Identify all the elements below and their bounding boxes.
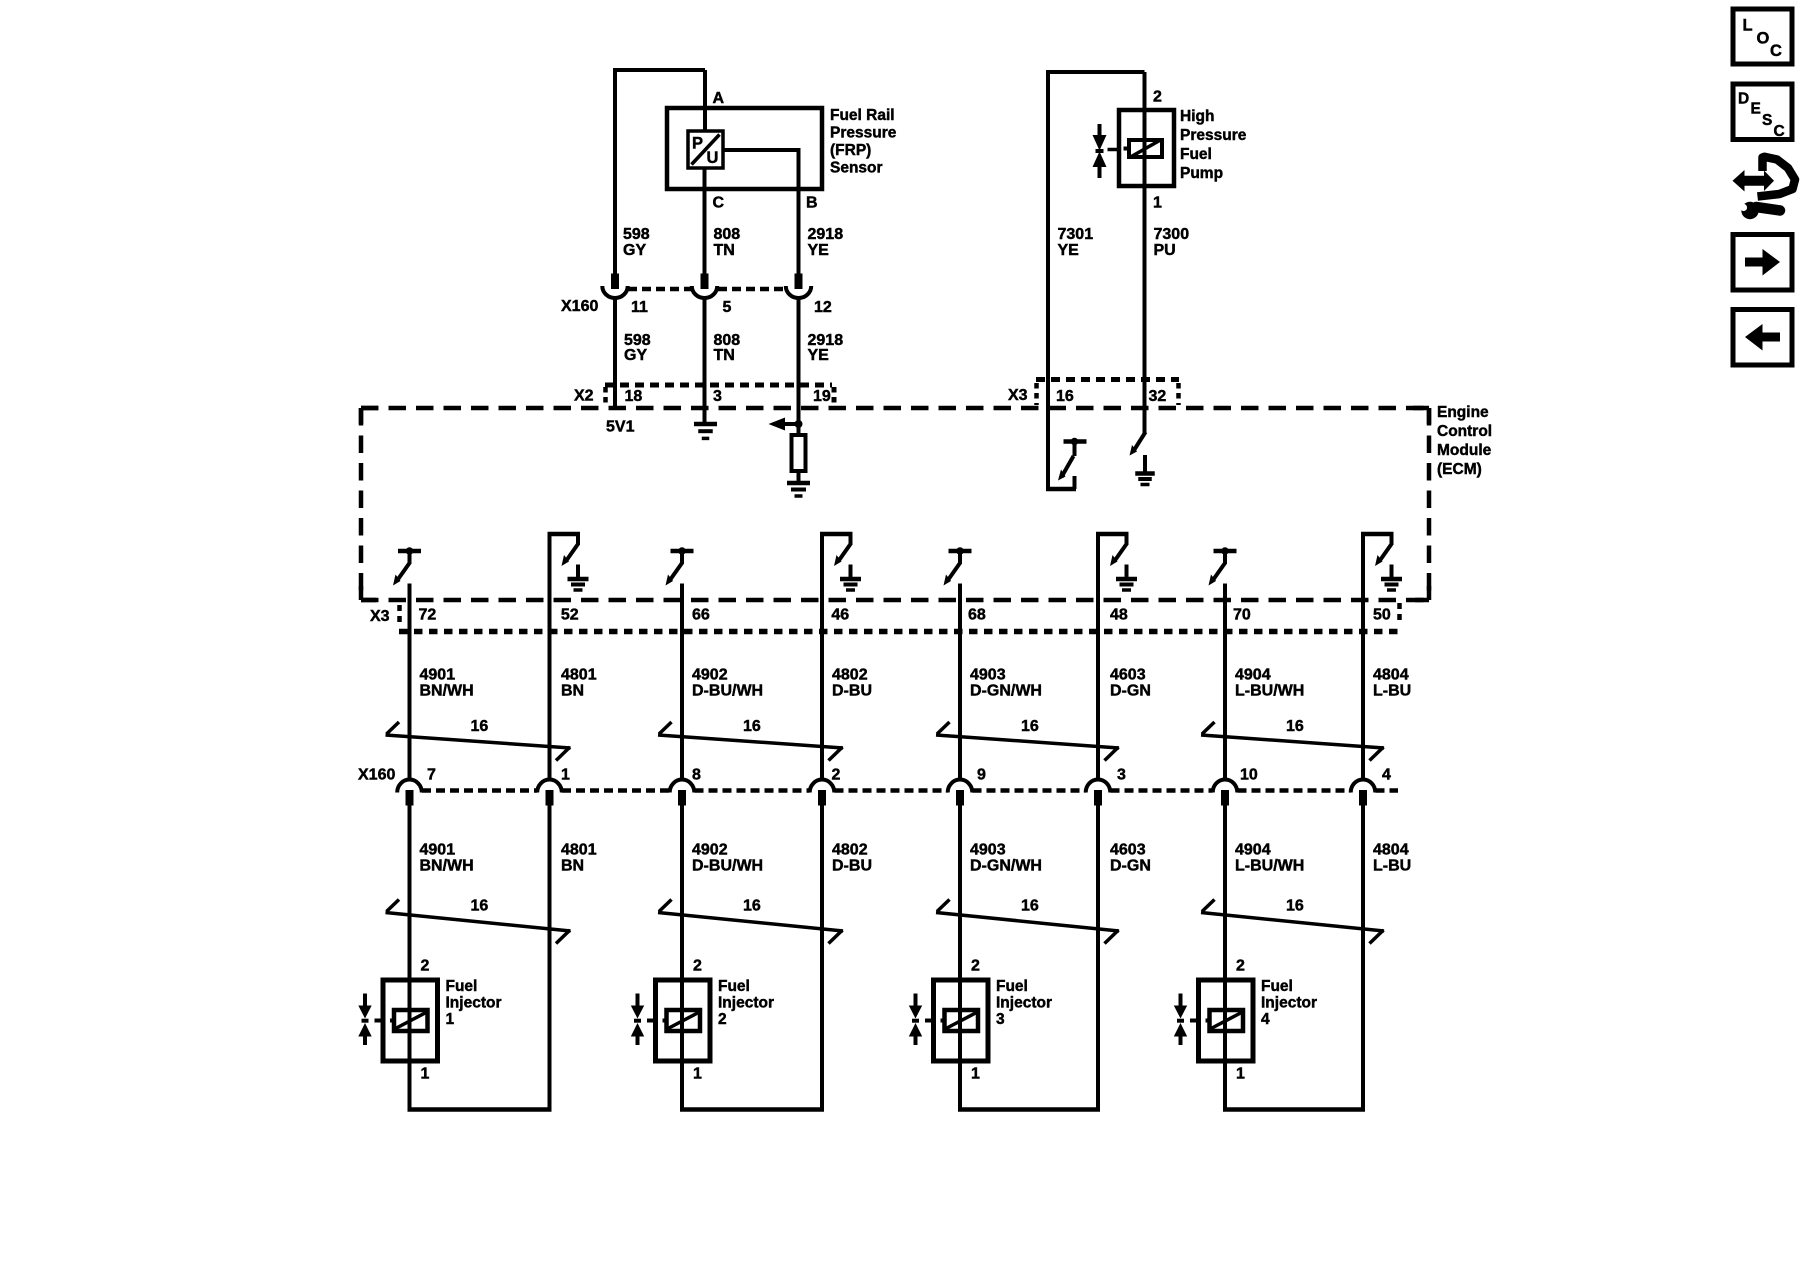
svg-text:11: 11 [631,299,648,316]
svg-text:Control: Control [1437,423,1492,440]
svg-text:3: 3 [1117,767,1126,784]
svg-text:P: P [692,134,703,152]
svg-text:7301: 7301 [1058,226,1094,243]
svg-text:X3: X3 [370,608,390,625]
svg-text:BN: BN [561,683,584,700]
svg-text:46: 46 [831,607,849,624]
svg-text:1: 1 [561,767,570,784]
svg-text:4802: 4802 [832,842,868,859]
svg-text:C: C [1770,42,1782,60]
svg-text:Pump: Pump [1180,165,1223,182]
svg-text:1: 1 [1236,1066,1245,1083]
svg-text:L-BU: L-BU [1373,683,1411,700]
svg-text:D-BU: D-BU [832,683,872,700]
svg-text:2: 2 [693,958,702,975]
svg-text:2: 2 [718,1011,727,1028]
svg-text:Fuel: Fuel [1261,978,1293,995]
svg-text:7: 7 [427,767,436,784]
svg-text:68: 68 [968,607,986,624]
svg-text:D-GN/WH: D-GN/WH [970,858,1042,875]
svg-text:Pressure: Pressure [1180,127,1247,144]
svg-text:4901: 4901 [420,667,456,684]
svg-text:4603: 4603 [1110,667,1146,684]
svg-text:7300: 7300 [1154,226,1190,243]
svg-text:66: 66 [692,607,710,624]
svg-text:4904: 4904 [1235,667,1271,684]
svg-text:D-BU/WH: D-BU/WH [692,683,763,700]
svg-text:2: 2 [1153,89,1162,106]
svg-text:Injector: Injector [718,995,774,1012]
svg-text:16: 16 [471,718,489,735]
svg-text:4: 4 [1382,767,1391,784]
svg-text:BN/WH: BN/WH [420,858,474,875]
svg-text:2: 2 [1236,958,1245,975]
svg-text:TN: TN [714,242,735,259]
svg-text:D: D [1738,91,1749,108]
svg-text:1: 1 [693,1066,702,1083]
svg-text:L-BU/WH: L-BU/WH [1235,683,1304,700]
svg-text:4: 4 [1261,1011,1270,1028]
svg-text:BN/WH: BN/WH [420,683,474,700]
svg-text:16: 16 [1021,898,1039,915]
svg-text:B: B [806,195,818,212]
svg-text:16: 16 [1286,898,1304,915]
svg-text:C: C [713,195,725,212]
svg-text:D-GN/WH: D-GN/WH [970,683,1042,700]
svg-text:2: 2 [971,958,980,975]
svg-text:12: 12 [814,299,832,316]
svg-text:Fuel: Fuel [446,978,478,995]
svg-text:YE: YE [1058,242,1080,259]
svg-text:4903: 4903 [970,667,1006,684]
svg-text:(ECM): (ECM) [1437,461,1482,478]
svg-text:19: 19 [813,388,831,405]
svg-text:O: O [1757,30,1770,48]
svg-text:18: 18 [625,388,643,405]
svg-text:3: 3 [713,388,722,405]
svg-text:9: 9 [977,767,986,784]
svg-text:2: 2 [421,958,430,975]
svg-text:(FRP): (FRP) [830,142,871,159]
svg-text:TN: TN [714,347,735,364]
svg-text:50: 50 [1373,607,1391,624]
svg-text:4603: 4603 [1110,842,1146,859]
svg-text:D-BU: D-BU [832,858,872,875]
svg-text:Fuel: Fuel [718,978,750,995]
svg-text:E: E [1751,101,1761,118]
svg-text:L-BU/WH: L-BU/WH [1235,858,1304,875]
svg-text:16: 16 [743,718,761,735]
svg-text:2918: 2918 [808,226,844,243]
svg-text:Injector: Injector [1261,995,1317,1012]
svg-text:2: 2 [832,767,841,784]
svg-text:4801: 4801 [561,667,597,684]
svg-text:4903: 4903 [970,842,1006,859]
svg-text:1: 1 [421,1066,430,1083]
svg-text:GY: GY [623,242,646,259]
svg-text:Module: Module [1437,442,1492,459]
svg-text:YE: YE [808,347,830,364]
svg-text:D-BU/WH: D-BU/WH [692,858,763,875]
svg-text:A: A [713,90,725,107]
svg-text:D-GN: D-GN [1110,683,1151,700]
svg-text:GY: GY [624,347,647,364]
svg-text:4901: 4901 [420,842,456,859]
svg-text:X2: X2 [574,388,594,405]
svg-text:BN: BN [561,858,584,875]
svg-text:72: 72 [419,607,437,624]
svg-text:1: 1 [446,1011,455,1028]
svg-text:16: 16 [1286,718,1304,735]
svg-text:Pressure: Pressure [830,125,897,142]
svg-text:52: 52 [561,607,579,624]
svg-text:Sensor: Sensor [830,160,883,177]
svg-text:598: 598 [623,226,650,243]
svg-text:1: 1 [1153,195,1162,212]
svg-text:S: S [1762,112,1772,129]
svg-text:D-GN: D-GN [1110,858,1151,875]
svg-text:16: 16 [471,898,489,915]
svg-text:L-BU: L-BU [1373,858,1411,875]
svg-text:4802: 4802 [832,667,868,684]
svg-text:Fuel: Fuel [996,978,1028,995]
svg-text:48: 48 [1110,607,1128,624]
svg-text:Injector: Injector [996,995,1052,1012]
svg-text:8: 8 [692,767,701,784]
svg-text:5: 5 [723,299,732,316]
svg-text:16: 16 [1021,718,1039,735]
svg-text:4904: 4904 [1235,842,1271,859]
svg-text:4902: 4902 [692,842,728,859]
svg-text:X160: X160 [561,298,598,315]
svg-text:U: U [707,149,719,167]
svg-text:1: 1 [971,1066,980,1083]
svg-text:4902: 4902 [692,667,728,684]
svg-text:Fuel Rail: Fuel Rail [830,107,895,124]
svg-text:PU: PU [1154,242,1176,259]
svg-text:X160: X160 [358,767,395,784]
svg-text:YE: YE [808,242,830,259]
svg-text:C: C [1774,123,1785,140]
svg-text:Fuel: Fuel [1180,146,1212,163]
svg-text:X3: X3 [1008,387,1028,404]
svg-text:10: 10 [1240,767,1258,784]
svg-text:70: 70 [1233,607,1251,624]
svg-text:16: 16 [1056,388,1074,405]
svg-text:4801: 4801 [561,842,597,859]
svg-text:High: High [1180,108,1214,125]
svg-text:4804: 4804 [1373,842,1409,859]
svg-text:3: 3 [996,1011,1005,1028]
svg-text:32: 32 [1149,388,1167,405]
svg-text:Engine: Engine [1437,404,1489,421]
svg-text:808: 808 [714,226,741,243]
svg-text:Injector: Injector [446,995,502,1012]
svg-text:16: 16 [743,898,761,915]
svg-text:5V1: 5V1 [606,419,635,436]
svg-text:4804: 4804 [1373,667,1409,684]
svg-text:L: L [1743,17,1753,35]
